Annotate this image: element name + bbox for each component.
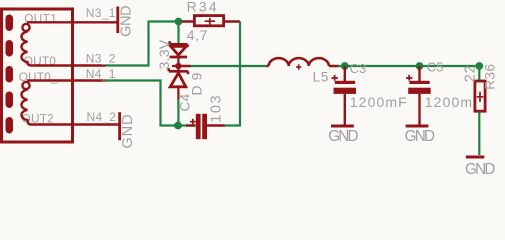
ground GND under C5 [405, 126, 435, 145]
transformer winding 2 [21, 81, 73, 125]
transformer winding 1 [21, 22, 73, 65]
pin N3_2 wire [73, 64, 106, 66]
node junction dot R36 [475, 62, 483, 70]
svg-text:N3_2: N3_2 [86, 51, 116, 65]
wire mid rail red stub [178, 65, 190, 67]
node junction dot C3 [341, 62, 349, 70]
inductor L5 [267, 58, 339, 70]
capacitor C5 [406, 66, 431, 125]
diode D9 lower zener [169, 66, 188, 100]
node diode mid junction [175, 63, 181, 69]
svg-text:GND: GND [118, 6, 134, 37]
transformer core bars [6, 15, 14, 134]
node junction dot C5 [416, 62, 424, 70]
ground GND at pin N3_1 [116, 6, 134, 37]
ground GND at pin N4_2 [118, 112, 136, 148]
capacitor C4 [186, 114, 225, 139]
wire N3_2 to top rail [106, 22, 179, 66]
wire diode bottom to bottom rail [177, 99, 179, 126]
svg-text:1200mF: 1200mF [350, 94, 408, 110]
node junction dot bottom rail [174, 122, 182, 130]
svg-text:4,7: 4,7 [187, 27, 208, 43]
node junction dot top rail [175, 18, 183, 26]
svg-text:GND: GND [120, 114, 136, 149]
svg-text:3.3V: 3.3V [157, 39, 173, 69]
svg-text:C4: C4 [177, 93, 192, 111]
svg-text:GND: GND [405, 128, 435, 145]
svg-text:103: 103 [209, 94, 225, 123]
pin N4_1 wire [73, 79, 106, 81]
transformer TR box [2, 9, 73, 142]
diode D9 upper zener [170, 41, 191, 66]
capacitor C3 [331, 66, 356, 125]
ground GND under C3 [328, 126, 358, 145]
svg-text:GND: GND [328, 128, 358, 145]
svg-text:L5: L5 [313, 69, 330, 84]
pin N4_2 wire to gnd [73, 123, 119, 125]
wire bottom rail left segment [178, 124, 186, 126]
svg-text:R34: R34 [187, 0, 219, 15]
wire R34 right down to bottom rail [224, 22, 240, 126]
wire diode mid to inductor [190, 65, 267, 67]
wire top rail to diode [177, 22, 179, 44]
pin N3_1 wire to gnd [73, 21, 117, 23]
svg-text:OUT2: OUT2 [22, 111, 54, 125]
svg-text:GND: GND [465, 161, 495, 178]
wire node to R36 [478, 66, 480, 81]
svg-text:D9: D9 [189, 68, 205, 96]
svg-text:N3_1: N3_1 [86, 6, 116, 20]
wire inductor to C3 node [338, 65, 479, 67]
svg-text:22: 22 [462, 65, 478, 83]
svg-text:N4_1: N4_1 [86, 67, 116, 81]
resistor R36 [475, 81, 485, 111]
svg-text:N4_2: N4_2 [87, 110, 117, 124]
svg-text:R36: R36 [482, 63, 497, 89]
ground GND under R36 [465, 157, 495, 178]
wire R36 to gnd [478, 112, 480, 156]
wire N4_1 to bottom rail [106, 81, 179, 126]
resistor R34 [182, 16, 241, 26]
svg-text:C3: C3 [350, 61, 367, 76]
svg-text:C5: C5 [427, 59, 444, 74]
